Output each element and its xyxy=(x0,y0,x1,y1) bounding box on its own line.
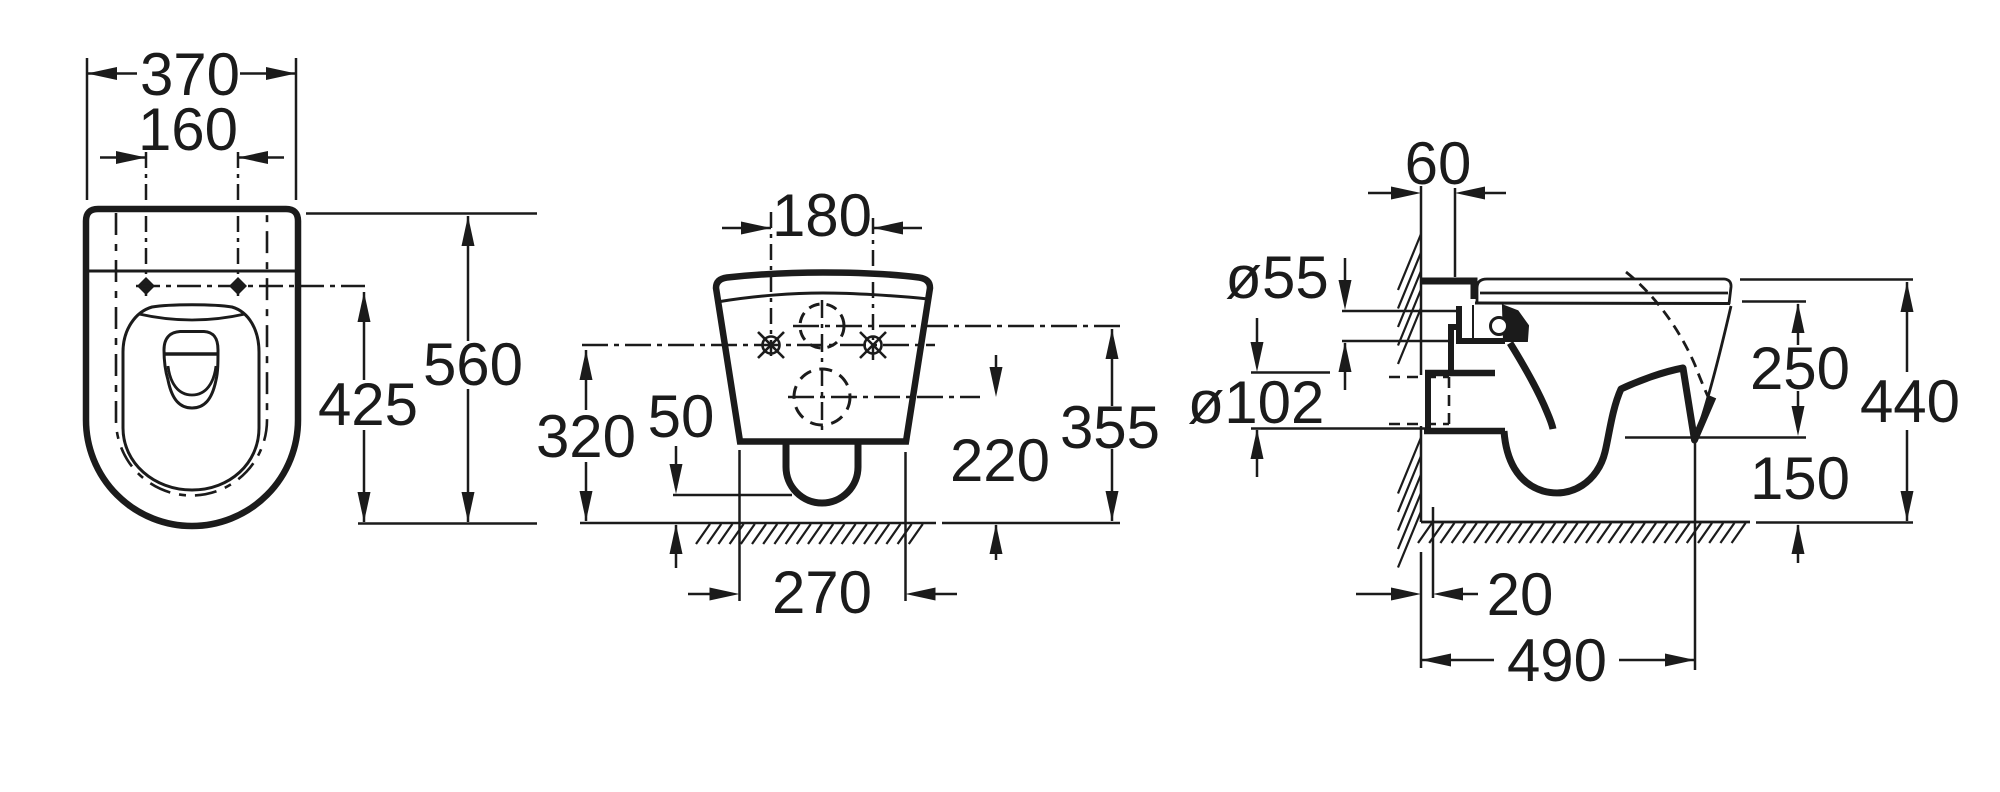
side-view back face xyxy=(1425,373,1431,431)
top-view flush water line xyxy=(165,352,217,356)
dim 20 arrow left xyxy=(1356,593,1414,596)
front-view fixing hole right xyxy=(865,337,882,354)
dim 370 arrow right xyxy=(266,67,296,80)
dim 560 arrow top xyxy=(462,216,475,246)
side-view hinge bolt circle xyxy=(1491,318,1508,335)
top-view flush opening outline xyxy=(164,332,218,409)
dim 50 arrow bottom xyxy=(670,524,683,554)
dim 60 extension right xyxy=(1454,188,1457,277)
dim 60 arrow right xyxy=(1462,192,1506,195)
fixing hole centerline right xyxy=(237,152,240,300)
top-view hidden inner wall dashed xyxy=(116,213,267,496)
side-view lid/seat joint line xyxy=(1480,292,1728,295)
svg-text:250: 250 xyxy=(1750,335,1850,402)
fixing hole diamond left xyxy=(137,277,155,295)
wall hatching xyxy=(1398,234,1421,290)
dim 425 arrow bottom xyxy=(358,492,371,522)
side-view hinge centerline xyxy=(1472,305,1474,339)
inlet circle centerline horiz xyxy=(793,325,1120,328)
dim 440 line xyxy=(1906,282,1909,372)
dia55 line top xyxy=(1342,310,1456,313)
dim 560/425 extension bottom xyxy=(358,522,537,525)
dim 355 arrow bottom xyxy=(1106,491,1119,521)
dia102 arrow top xyxy=(1256,318,1259,365)
side-view back shelf bottom xyxy=(1424,428,1505,435)
side-view bowl profile xyxy=(1504,368,1713,493)
dim 250 arrow top xyxy=(1792,303,1805,333)
dim 250/150 extension middle xyxy=(1625,436,1806,439)
dim 440 extension top xyxy=(1740,278,1913,281)
dim 60 arrow left xyxy=(1368,192,1414,195)
front-view seat joint line xyxy=(717,293,928,302)
svg-text:20: 20 xyxy=(1487,561,1554,628)
dia55 line bottom xyxy=(1342,340,1451,343)
front-view fixing holes horizontal centerline xyxy=(582,344,935,347)
toilet front-view body outline xyxy=(716,273,930,442)
dim 560 arrow bottom xyxy=(462,492,475,522)
top-view cistern shelf line xyxy=(86,270,298,273)
side-view lid outline xyxy=(1477,279,1731,304)
dim 160 arrow left xyxy=(100,156,146,159)
dim 270 extension right xyxy=(904,452,907,601)
dim 355 line xyxy=(1111,329,1114,406)
svg-text:270: 270 xyxy=(772,559,872,626)
side-view ground extension right xyxy=(1756,521,1913,524)
svg-text:490: 490 xyxy=(1507,627,1607,694)
dim 440 arrow top xyxy=(1901,282,1914,312)
dim 270 arrow left xyxy=(688,593,733,596)
front-view ground hatching xyxy=(696,524,710,544)
dia102 line top xyxy=(1251,371,1330,374)
svg-text:220: 220 xyxy=(950,427,1050,494)
dim 370 arrow left xyxy=(87,67,117,80)
dim 490 arrow left xyxy=(1421,654,1451,667)
dim 250 extension top xyxy=(1742,300,1806,303)
svg-text:320: 320 xyxy=(536,403,636,470)
dia55 arrow bottom xyxy=(1339,342,1352,372)
svg-text:150: 150 xyxy=(1750,445,1850,512)
dia102 line bottom xyxy=(1251,427,1426,430)
svg-text:ø55: ø55 xyxy=(1225,244,1328,311)
outlet circle dia102 xyxy=(794,369,850,425)
dim 270 extension left xyxy=(738,450,741,601)
dim 220 arrow bottom xyxy=(990,524,1003,554)
svg-text:355: 355 xyxy=(1060,394,1160,461)
side-view ground line xyxy=(1421,521,1750,524)
dim 490 arrow right xyxy=(1665,654,1695,667)
top-view seat opening outline xyxy=(123,305,259,490)
dim 270 arrow right xyxy=(912,593,957,596)
side-view mounting bracket top xyxy=(1421,281,1474,299)
hidden outlet pipe dashed xyxy=(1389,376,1449,379)
dim 370 line xyxy=(87,72,137,75)
dim 150 arrow bottom xyxy=(1792,524,1805,554)
dim 560 line xyxy=(467,216,470,341)
side-view rim diagonal line xyxy=(1697,306,1731,432)
side-view hidden contour dashed xyxy=(1626,272,1709,399)
dim 50 reference line xyxy=(673,494,792,497)
svg-text:160: 160 xyxy=(138,96,238,163)
dia55 arrow top xyxy=(1344,258,1347,303)
dim 50 arrow top xyxy=(675,446,678,488)
wall face line xyxy=(1420,186,1423,375)
dim 320 line xyxy=(585,350,588,410)
dim 180 arrow left xyxy=(722,227,771,230)
fixing hole diamond right xyxy=(229,277,247,295)
dim 180 arrow right xyxy=(873,227,922,230)
svg-text:60: 60 xyxy=(1405,130,1472,197)
svg-text:180: 180 xyxy=(772,182,872,249)
front-view hole centerline left xyxy=(770,212,773,360)
water inlet circle dia55 xyxy=(800,304,844,348)
dim 490 extension right xyxy=(1694,443,1697,670)
dim 425 line xyxy=(363,292,366,380)
dim 440 arrow bottom xyxy=(1901,491,1914,521)
dim 250 arrow bottom xyxy=(1797,391,1800,430)
dim 370 extension left xyxy=(86,58,89,200)
dim 20 extension wall xyxy=(1420,552,1423,668)
front-view ground line xyxy=(580,522,936,525)
top-view flush inner arc xyxy=(168,366,216,395)
dim 370 extension right xyxy=(295,58,298,200)
svg-text:ø102: ø102 xyxy=(1188,369,1325,436)
front-view hole centerline right xyxy=(872,218,875,360)
fixing hole horizontal centerline xyxy=(136,285,368,288)
side-view inlet step xyxy=(1451,327,1459,371)
outlet circle centerline horiz xyxy=(788,396,980,399)
dim 320 arrow bottom xyxy=(580,491,593,521)
front-view vertical centerline xyxy=(821,300,824,436)
top-view bowl rim second line xyxy=(139,314,245,320)
toilet top-view body outline xyxy=(86,209,298,526)
dim 355 arrow top xyxy=(1106,329,1119,359)
svg-text:425: 425 xyxy=(318,371,418,438)
dim 425 arrow top xyxy=(358,292,371,322)
dim 160 arrow right xyxy=(238,156,284,159)
side-view ground hatching xyxy=(1418,523,1432,543)
dim 320 arrow top xyxy=(580,350,593,380)
dim 220 arrow top xyxy=(995,355,998,390)
dim 20 extension back xyxy=(1432,507,1435,598)
svg-text:50: 50 xyxy=(648,383,715,450)
dim 490 line xyxy=(1421,659,1494,662)
side-view hinge bracket xyxy=(1459,306,1505,341)
svg-text:440: 440 xyxy=(1860,368,1960,435)
dim 20 arrow right xyxy=(1440,593,1478,596)
dia102 arrow bottom xyxy=(1251,429,1264,459)
svg-text:560: 560 xyxy=(423,331,523,398)
front-view outlet spigot xyxy=(786,444,858,503)
side-view back shelf top xyxy=(1425,370,1495,377)
side-view seat underside line xyxy=(1475,302,1730,306)
fixing hole centerline left xyxy=(145,152,148,300)
front-view fixing hole left xyxy=(763,337,780,354)
side-view bowl back slope xyxy=(1510,343,1553,429)
dim 560 extension top xyxy=(306,212,537,215)
